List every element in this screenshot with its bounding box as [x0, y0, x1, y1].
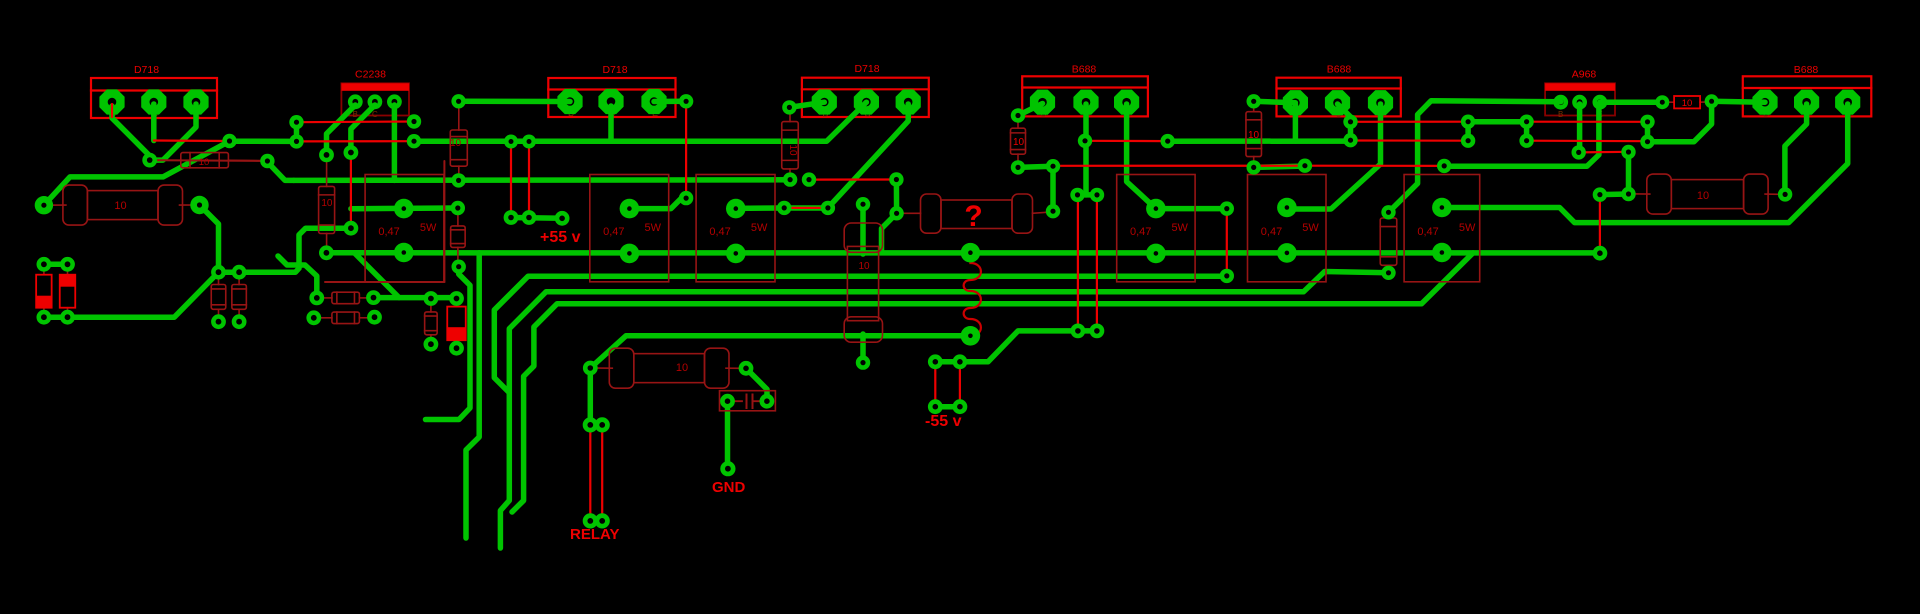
diode D3: [456, 300, 458, 307]
wire V6 bottom link: [1018, 166, 1053, 167]
net airwire relay right: [601, 425, 603, 521]
wire A968.C stub: [1577, 104, 1583, 153]
net airwire row179: [809, 178, 896, 180]
wire pad P21 pair: [894, 180, 900, 214]
wire R5 top to Q2.B: [459, 99, 570, 105]
pad Q5.C a: [1343, 115, 1357, 129]
pad Q4.C net c: [1090, 188, 1104, 202]
pad V4.2: [783, 172, 797, 186]
wire relay column: [588, 368, 594, 425]
wire stub v2 from L1: [466, 253, 479, 538]
pad node N4: [260, 154, 274, 168]
wire R1 left to node N2: [44, 141, 230, 205]
wire Q5.B stub: [1293, 104, 1299, 141]
pad X2.1: [620, 199, 640, 219]
pad Q4 base net: [1011, 108, 1025, 122]
svg-text:10: 10: [787, 144, 798, 156]
pad relay a: [583, 417, 598, 432]
pad D1.1: [37, 257, 52, 272]
pad R15.2: [367, 310, 382, 325]
wire query pad down: [1050, 166, 1056, 211]
pad R5.2: [451, 173, 465, 187]
transistor Q6 B688: [1743, 76, 1872, 116]
pad R10.2: [1247, 160, 1261, 174]
net airwire row208: [784, 207, 828, 209]
pad -55 b: [953, 354, 968, 369]
svg-text:10: 10: [1013, 137, 1025, 148]
pad C2.2: [760, 394, 775, 409]
pad R2.2: [739, 361, 754, 376]
pad V9 b: [1640, 135, 1654, 149]
pad X6.2: [1432, 243, 1452, 263]
svg-text:5W: 5W: [420, 222, 437, 234]
wire bus row180: [294, 177, 790, 183]
pad J272b: [232, 265, 247, 280]
svg-text:D718: D718: [602, 64, 627, 76]
pad L1 coil bottom: [961, 326, 981, 346]
wire X4 top to via V7: [1156, 206, 1227, 212]
svg-text:10: 10: [199, 157, 210, 168]
svg-text:5W: 5W: [645, 222, 662, 234]
pad R15.1: [306, 310, 321, 325]
wire R1 right down: [200, 205, 219, 272]
pad row330 b: [1090, 324, 1105, 339]
pad D1.2: [37, 310, 52, 325]
pad X2.2: [620, 244, 640, 264]
pad D3.1: [449, 291, 464, 306]
wire Q5.C diag: [1338, 104, 1351, 122]
pad C2.1: [720, 394, 735, 409]
svg-text:A968: A968: [1572, 69, 1597, 81]
wire cap to GND pad: [725, 401, 731, 469]
net airwire -55 right: [959, 362, 961, 407]
net airwire -55 left: [934, 362, 936, 407]
resistor X2 0,47 5W box: [590, 175, 669, 282]
diode D2: [67, 266, 69, 275]
pad Q4.C net a: [1078, 134, 1092, 148]
wire Q5.E down to X5: [1287, 104, 1381, 209]
pad node N1: [142, 153, 157, 168]
transistor Q1 D718: [91, 78, 217, 118]
pad V7 bottom: [1220, 269, 1234, 283]
pad P12: [407, 114, 421, 128]
wire row141 mid: [1168, 138, 1351, 144]
wire Q4.C down: [1083, 104, 1089, 195]
pad +55 c: [504, 210, 519, 225]
net airwire Q1.B stub: [111, 104, 113, 117]
wire pad P13 up corner: [219, 228, 351, 272]
pad V5 top: [679, 94, 693, 108]
wire R3 left to pad: [1600, 191, 1629, 197]
pad X4.1: [1146, 199, 1166, 219]
svg-text:5W: 5W: [1302, 222, 1319, 234]
resistor X4 0,47 5W box: [1117, 175, 1195, 282]
wire jog N4 to row180: [267, 162, 293, 180]
wire Q2.E to via V5: [654, 99, 686, 105]
pad Q5.C b: [1343, 133, 1357, 147]
pad P20b: [777, 201, 791, 215]
wire Q1.C to bus row141: [151, 104, 157, 141]
net airwire col1097: [1096, 197, 1098, 331]
wire V4 top to Q3.B: [789, 102, 824, 107]
pad X5.1: [1277, 198, 1297, 218]
pad X4.2: [1146, 244, 1166, 264]
svg-text:0,47: 0,47: [378, 226, 399, 238]
transistor Q2 D718: [548, 78, 675, 117]
capacitor C1 10: [844, 223, 882, 252]
pad L1 coil top: [961, 243, 981, 263]
pad +55 d: [522, 210, 537, 225]
net lead row160: [150, 159, 268, 162]
net airwire row140 right a: [1351, 139, 1469, 141]
net airwire +55 left: [510, 142, 512, 218]
wire stub v1: [426, 267, 471, 420]
net airwire row166 b: [1305, 165, 1444, 167]
wire pad V9 pair: [1645, 122, 1651, 142]
pad pair1468 b: [1461, 134, 1475, 148]
wire row166 to A968.E: [1444, 104, 1599, 166]
pad query right: [1046, 159, 1060, 173]
net airwire col1600: [1599, 195, 1601, 254]
pad X1.1: [394, 199, 414, 219]
svg-text:10: 10: [321, 198, 333, 209]
wire pad P21 diag to L1: [882, 213, 897, 253]
pad D3.2: [449, 341, 464, 356]
pad P20: [821, 201, 835, 215]
wire pair 1468: [1465, 122, 1471, 141]
svg-text:B688: B688: [1327, 64, 1352, 76]
wire +55 rail pads: [511, 215, 562, 221]
resistor R2 10: [590, 367, 612, 369]
resistor R11: [1388, 215, 1390, 219]
pad C1.1: [856, 197, 870, 211]
svg-text:?: ?: [964, 200, 982, 233]
pad D2.1: [60, 257, 75, 272]
wire Q4.C pads pair: [1078, 192, 1098, 198]
transistor Q7 C2238: [341, 83, 409, 115]
wire Q7.C to pad P11: [351, 105, 375, 153]
pad V9 a: [1640, 115, 1654, 129]
resistor R18: [238, 273, 240, 285]
transistor Q8 A968: [1545, 83, 1615, 115]
pad R3.1b: [1593, 187, 1607, 201]
wire Q7.B to pad P10: [327, 105, 356, 155]
resistor R7: [457, 210, 459, 226]
pad RELAY 2: [595, 513, 610, 528]
pad R10.1: [1247, 94, 1261, 108]
svg-text:B688: B688: [1072, 64, 1097, 76]
svg-text:D718: D718: [854, 63, 879, 75]
wire Q4.E down to X4: [1127, 104, 1156, 209]
wire -55 bottom link: [935, 404, 960, 410]
svg-text:+55 v: +55 v: [540, 229, 581, 246]
pad R1.1: [35, 196, 53, 214]
wire pad P14 up zigzag: [278, 256, 317, 298]
net airwire col351: [350, 153, 352, 229]
wire diode row top link: [44, 262, 68, 268]
net airwire col1078: [1077, 197, 1079, 331]
net airwire relay left: [589, 425, 591, 521]
pad Q4.C net b: [1070, 188, 1084, 202]
net airwire row122 left: [297, 120, 415, 123]
svg-text:10: 10: [114, 200, 126, 212]
pad X1.2: [394, 243, 414, 263]
pad row330 a: [1071, 324, 1086, 339]
svg-text:10: 10: [1248, 130, 1260, 141]
pad pair1527 b: [1519, 134, 1533, 148]
pad +55 b: [522, 135, 536, 149]
wire bus L3: [500, 272, 1388, 549]
pad R5.1: [451, 94, 465, 108]
net airwire row166 a: [1053, 165, 1305, 167]
pad R3.2: [1778, 187, 1792, 201]
wire L1 branch to resistor row: [354, 253, 456, 298]
net lead row282: [325, 281, 444, 283]
wire Q2.C stub to row141: [608, 106, 614, 141]
pad P10: [319, 148, 334, 163]
resistor R9 10: [1017, 118, 1019, 128]
pad R13.2: [424, 337, 439, 352]
pad X3.1: [726, 199, 746, 219]
pad R3.1: [1621, 187, 1635, 201]
wire bus L2: [494, 276, 1227, 392]
pad J272a: [211, 265, 226, 280]
net airwire row140 right b: [1527, 140, 1648, 143]
pad pair1527 a: [1519, 115, 1533, 129]
resistor X1 0,47 5W box: [365, 175, 444, 282]
pad A968.C net: [1572, 145, 1586, 159]
wire -55 rail link: [935, 331, 1097, 362]
resistor R15: [315, 317, 332, 319]
resistor R16 10: [151, 159, 181, 161]
svg-text:10: 10: [858, 261, 870, 272]
wire bus L1: [326, 250, 1600, 256]
pad query col: [1046, 204, 1060, 218]
svg-text:B: B: [1558, 110, 1563, 119]
wire Q1.E to node N1: [151, 104, 196, 160]
resistor R13: [430, 301, 432, 312]
wire pad V9 to S1: [1648, 101, 1712, 141]
pad S1.2: [1705, 94, 1719, 108]
wire X2 top pad to via V5: [629, 198, 686, 209]
pad C1.2: [856, 355, 870, 369]
svg-text:-55 v: -55 v: [925, 413, 962, 430]
net airwire V5 column: [685, 101, 687, 198]
wire cap C1 stub top: [860, 204, 866, 254]
svg-text:D718: D718: [134, 64, 159, 76]
capacitor C2: [720, 391, 776, 411]
net airwire row122 right b: [1527, 121, 1648, 123]
transistor Q4 B688: [1022, 76, 1148, 116]
pad L1 right end: [1593, 246, 1608, 261]
svg-text:C2238: C2238: [355, 69, 386, 81]
pad V5 bottom: [679, 191, 693, 205]
pad R14.1: [309, 291, 324, 306]
pad -55 c: [928, 399, 943, 414]
wire bus row141 main: [414, 102, 866, 141]
wire Q6.E long route: [1442, 104, 1848, 223]
pad X5.2: [1277, 243, 1297, 263]
resistor X6 0,47 5W box: [1404, 175, 1480, 282]
wire Q7.E to bus row180: [392, 105, 398, 180]
svg-text:0,47: 0,47: [603, 226, 624, 238]
pad L1 left: [319, 245, 334, 260]
wire bus L5: [590, 336, 970, 368]
net airwire +55 right: [528, 142, 530, 218]
wire Q4.B diag: [1018, 104, 1043, 116]
pad row166 b: [1437, 159, 1451, 173]
net airwire row152: [1579, 151, 1629, 154]
wire cap C1 stub bottom: [860, 334, 866, 363]
net lead col444: [443, 161, 445, 282]
svg-text:10: 10: [676, 362, 688, 374]
wire S1 to Q6.B: [1712, 99, 1765, 105]
pad row141 mid: [1161, 134, 1175, 148]
pad P21a: [889, 172, 903, 186]
wire A968.E to S1: [1600, 99, 1662, 105]
pad P12b: [407, 134, 421, 148]
svg-text:10: 10: [1697, 190, 1709, 202]
pad V4.1: [782, 100, 796, 114]
svg-text:0,47: 0,47: [1130, 226, 1151, 238]
resistor R14: [318, 297, 332, 299]
wire node N2 link row141: [230, 138, 297, 144]
svg-text:GND: GND: [712, 479, 746, 496]
wire Q3.E down to pad P20: [828, 104, 908, 208]
pad R3.0: [1621, 145, 1635, 159]
wire V7r bottom link: [1254, 166, 1308, 167]
pad D2.2: [60, 310, 75, 325]
wire resistor row297: [374, 295, 400, 301]
pad -55 a: [928, 354, 943, 369]
transistor Q3 D718: [802, 78, 929, 117]
transistor Q5 B688: [1277, 78, 1401, 117]
wire bus L4: [512, 253, 1473, 512]
pad row166 a: [1298, 159, 1312, 173]
resistor R3 10: [1628, 193, 1650, 195]
resistor X3 0,47 5W box: [696, 175, 775, 282]
svg-text:5W: 5W: [1171, 222, 1188, 234]
pad R11.1: [1381, 205, 1395, 219]
resistor R5 10: [458, 101, 460, 130]
wire pair 1527: [1524, 122, 1530, 141]
wire diode row bottom: [44, 272, 219, 317]
pad GND: [720, 461, 735, 476]
pad P13: [344, 221, 359, 236]
pad node N2: [222, 134, 236, 148]
svg-text:RELAY: RELAY: [570, 526, 619, 543]
resistor R6 10: [326, 158, 328, 186]
resistor X5 0,47 5W box: [1248, 175, 1327, 282]
svg-text:10: 10: [450, 138, 462, 149]
pad P21b: [889, 206, 903, 220]
resistor R8 10: [789, 110, 791, 122]
wire Q6.C down: [1785, 104, 1807, 194]
wire R3 left up: [1626, 152, 1632, 194]
diode D1: [43, 266, 45, 275]
wire V8 to A968.B: [1389, 101, 1561, 213]
pad R1.2: [190, 196, 208, 214]
pad R7.1: [451, 201, 465, 215]
pad V7 top: [1220, 201, 1234, 215]
pad node N3a: [289, 115, 303, 129]
svg-text:0,47: 0,47: [1417, 226, 1438, 238]
pad node N3b: [289, 134, 303, 148]
wire Q1.B to node N1: [112, 106, 150, 160]
pad R14.2: [366, 290, 381, 305]
wire R2 right to cap: [746, 368, 767, 401]
pad relay b: [595, 417, 610, 432]
net airwire row141 b: [297, 140, 415, 142]
resistor R17: [218, 273, 220, 285]
net airwire row141 a: [154, 139, 230, 142]
pad R7.2: [452, 260, 466, 274]
svg-text:B688: B688: [1794, 64, 1819, 76]
pad RELAY 1: [583, 513, 598, 528]
wire pad P20 to X3 top: [736, 205, 828, 211]
resistor R12 10: [1662, 101, 1674, 103]
pad -55 d: [953, 399, 968, 414]
pad R17.2: [211, 314, 226, 329]
pad +55 a: [504, 135, 518, 149]
pad L5 corner: [583, 361, 598, 376]
inductor L1 coil: [964, 255, 981, 342]
pad R11.2: [1381, 266, 1395, 280]
pad pair1468 a: [1461, 115, 1475, 129]
wire node N3 vertical pair: [294, 122, 300, 141]
pad P11: [344, 145, 359, 160]
svg-text:C: C: [372, 110, 378, 119]
svg-text:5W: 5W: [1459, 222, 1476, 234]
net airwire col1227: [1226, 209, 1228, 276]
resistor R10 10: [1253, 104, 1255, 112]
wire V7r top to Q5.B: [1254, 101, 1296, 102]
net airwire row122 right a: [1351, 121, 1469, 123]
pad S1.1: [1655, 95, 1669, 109]
resistor R1 10: [44, 204, 66, 206]
svg-text:10: 10: [1682, 98, 1693, 109]
svg-text:5W: 5W: [751, 222, 768, 234]
svg-text:0,47: 0,47: [709, 226, 730, 238]
svg-text:0,47: 0,47: [1261, 226, 1282, 238]
pad R9.2: [1011, 160, 1025, 174]
pad R18.2: [232, 314, 247, 329]
pad X6.1: [1432, 198, 1452, 218]
net airwire row140 q4: [1085, 140, 1168, 143]
pad P20a: [802, 172, 816, 186]
pad R13.1: [424, 291, 439, 306]
wire Q5.C pads pair: [1348, 122, 1354, 140]
wire row208 left: [351, 205, 458, 211]
resistor R4 value ?: [897, 212, 921, 214]
wire row122 link: [1468, 119, 1527, 125]
svg-text:B: B: [353, 110, 358, 119]
pad +55 e: [555, 211, 570, 226]
pad X3.2: [726, 244, 746, 264]
